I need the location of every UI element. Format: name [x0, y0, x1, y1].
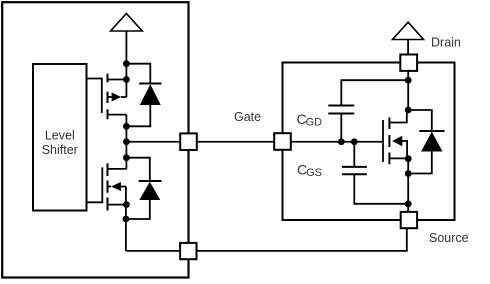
body diode D2 of Q2: branches: [126, 158, 149, 219]
wire: drain rail (pad to Q3 drain junction): [407, 71, 409, 110]
body diode D3 cathode bar: [419, 130, 444, 132]
transistor Q3 (power MOSFET): gate plate: [382, 120, 384, 162]
body diode D2 cathode bar: [139, 180, 162, 182]
junction dot: CGS lead on gate net: [351, 138, 358, 145]
junction dot: Q2 drain / D2 cathode: [123, 154, 130, 161]
body diode D1 of Q1: anode/cathode branches: [126, 64, 150, 127]
capacitor CGS top lead: [353, 142, 355, 167]
wire: output node (Q1 drain to Q2 drain, x=126.4 y 114.6-168.9): [125, 115, 127, 169]
body diode D3 of Q3: branches: [408, 110, 432, 174]
wire: source return rail (y=251): [126, 228, 406, 251]
capacitor CGD: top branch wire: [341, 80, 408, 105]
pad: source pin: [401, 212, 417, 228]
drain triangle (top supply symbol): [393, 22, 424, 39]
body diode D3 triangle: [421, 132, 442, 152]
junction dot: Q1 drain / D1 anode: [123, 123, 130, 130]
junction dot: CGD top at drain rail: [405, 77, 412, 84]
junction dot: gate output node: [123, 138, 130, 145]
capacitor CGD bottom lead: [340, 114, 342, 142]
svg-text:GD: GD: [306, 117, 323, 129]
right power-MOSFET package box: [283, 63, 455, 221]
transistor Q3 source stub: [389, 157, 408, 159]
junction dot: Q1 source: [123, 76, 130, 83]
junction dot: Q3 drain / D3 cathode: [405, 107, 412, 114]
wire: drain lead from triangle to drain pad: [407, 40, 409, 55]
capacitor CGD plates: [328, 106, 354, 114]
transistor Q2 channel segments: [107, 163, 109, 210]
level shifter box U1: [33, 64, 87, 211]
pad: driver return pin: [180, 243, 196, 259]
svg-text:Shifter: Shifter: [42, 143, 78, 157]
transistor Q1 (PMOS high-side): gate lead and gate plate: [87, 79, 102, 114]
wire: Q2 body/source down to return rail (x=126 y 186.5-251): [125, 187, 127, 251]
transistor Q2 (NMOS low-side): gate lead and gate plate: [87, 167, 103, 202]
junction dot: D2 anode: [123, 216, 130, 223]
transistor Q2 drain stub: [108, 168, 127, 170]
wire: gate output net (driver output to power FET gate): [126, 141, 383, 143]
svg-text:GS: GS: [306, 167, 322, 179]
pad: power FET gate pin: [274, 133, 291, 150]
transistor Q1 drain stub: [108, 114, 127, 116]
transistor Q3 body arrow (NMOS): [392, 136, 402, 146]
junction dot: Q2 source: [123, 201, 130, 208]
junction dot: D3 anode: [405, 170, 412, 177]
junction dot: CGD lead on gate net: [338, 138, 345, 145]
capacitor CGS plates: [342, 167, 367, 174]
junction dot: D1 cathode branch: [123, 60, 130, 67]
transistor Q1 channel segments: [107, 74, 109, 120]
svg-text:Gate: Gate: [234, 110, 261, 124]
junction dot: Q3 source: [405, 155, 412, 162]
wire: source rail (Q3 source junction down to source pad): [407, 158, 409, 212]
pad: driver gate output pin: [180, 133, 197, 150]
body diode D2 triangle: [139, 182, 160, 200]
wire: VDD rail down to PMOS source/body (x=126.4, y 31-97): [125, 31, 127, 97]
capacitor CGS bottom branch wire: [354, 174, 408, 204]
body diode D1 cathode bar: [139, 83, 161, 85]
transistor Q3 drain stub: [389, 110, 406, 123]
transistor Q1 body stub with PMOS arrow: [108, 96, 113, 98]
transistor Q2 source stub: [108, 204, 127, 206]
svg-text:Level: Level: [45, 128, 75, 142]
transistor Q1 source stub: [108, 79, 127, 81]
junction dot: CGS bottom at source rail: [405, 200, 412, 207]
supply triangle (driver VDD): [111, 14, 143, 32]
outer gate-driver box: [2, 2, 188, 277]
body diode D1 triangle: [140, 84, 161, 105]
svg-text:Source: Source: [429, 231, 469, 245]
svg-text:Drain: Drain: [431, 35, 461, 49]
transistor Q3 channel segments: [388, 118, 390, 165]
pad: drain pin: [400, 55, 417, 71]
transistor Q2 body stub with NMOS arrow: [108, 186, 112, 188]
